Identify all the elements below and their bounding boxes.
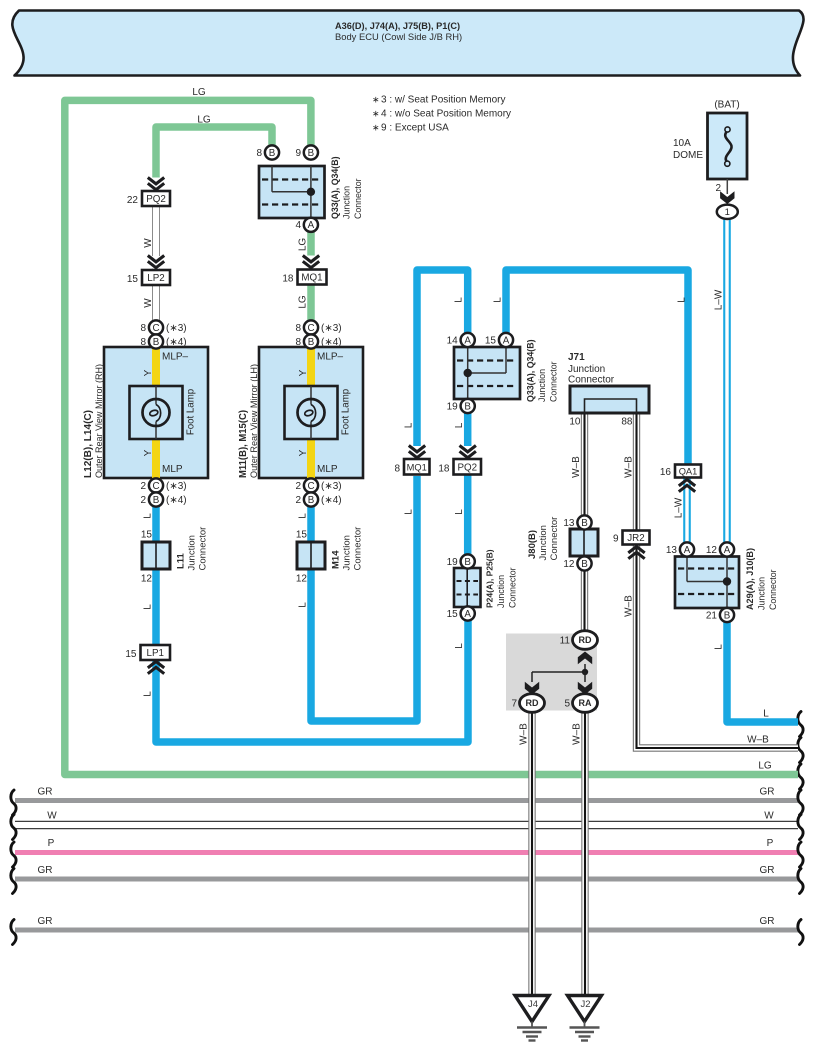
svg-text:(∗4): (∗4)	[321, 337, 342, 348]
svg-text:DOME: DOME	[673, 150, 703, 161]
svg-text:GR: GR	[38, 865, 53, 876]
svg-text:LG: LG	[298, 295, 309, 309]
svg-text:19: 19	[447, 557, 459, 568]
svg-text:P: P	[767, 838, 774, 849]
svg-text:B: B	[464, 401, 471, 412]
svg-text:11: 11	[560, 636, 571, 647]
svg-text:4 : w/o Seat Position Memory: 4 : w/o Seat Position Memory	[381, 109, 511, 120]
svg-text:Y: Y	[143, 369, 154, 376]
svg-text:L: L	[298, 602, 309, 608]
svg-text:Junction: Junction	[568, 364, 605, 375]
svg-text:B: B	[581, 518, 588, 529]
svg-text:8: 8	[256, 148, 262, 159]
svg-text:5: 5	[564, 699, 570, 710]
svg-text:J71: J71	[568, 352, 585, 363]
svg-text:RA: RA	[579, 698, 592, 708]
svg-text:W–B: W–B	[624, 456, 635, 478]
svg-text:(∗4): (∗4)	[321, 495, 342, 506]
svg-text:P: P	[48, 838, 55, 849]
svg-text:2: 2	[295, 481, 301, 492]
svg-text:A29(A), J10(B): A29(A), J10(B)	[745, 548, 755, 610]
svg-text:A36(D), J74(A), J75(B), P1(C): A36(D), J74(A), J75(B), P1(C)	[335, 21, 460, 31]
svg-text:MLP–: MLP–	[317, 352, 344, 363]
svg-text:LP1: LP1	[147, 648, 164, 659]
svg-text:L11: L11	[176, 552, 187, 569]
svg-text:MLP: MLP	[317, 464, 338, 475]
svg-text:A: A	[684, 545, 691, 556]
svg-text:13: 13	[666, 545, 678, 556]
svg-text:Connector: Connector	[508, 568, 518, 609]
svg-text:(∗4): (∗4)	[166, 495, 187, 506]
svg-text:10A: 10A	[673, 138, 691, 149]
svg-text:2: 2	[140, 481, 146, 492]
svg-text:Junction: Junction	[187, 535, 198, 570]
svg-text:W–B: W–B	[624, 595, 635, 617]
svg-text:Connector: Connector	[768, 570, 778, 611]
svg-text:21: 21	[706, 611, 718, 622]
svg-text:M14: M14	[331, 550, 342, 569]
svg-text:Junction: Junction	[496, 575, 506, 608]
svg-text:GR: GR	[38, 916, 53, 927]
svg-text:Y: Y	[298, 369, 309, 376]
svg-text:L12(B), L14(C): L12(B), L14(C)	[83, 410, 94, 478]
svg-text:8: 8	[140, 323, 146, 334]
svg-text:L: L	[454, 422, 465, 428]
svg-text:Junction: Junction	[342, 186, 352, 219]
svg-text:L–W: L–W	[714, 289, 725, 310]
svg-text:L: L	[454, 297, 465, 303]
svg-text:B: B	[153, 337, 160, 348]
svg-text:15: 15	[127, 274, 139, 285]
svg-text:1: 1	[725, 207, 730, 218]
svg-text:J2: J2	[580, 999, 590, 1010]
svg-text:Connector: Connector	[198, 527, 209, 571]
svg-text:15: 15	[447, 609, 459, 620]
svg-text:16: 16	[660, 467, 672, 478]
svg-text:W: W	[143, 298, 154, 308]
svg-text:Body ECU (Cowl Side J/B RH): Body ECU (Cowl Side J/B RH)	[335, 31, 462, 42]
svg-text:9: 9	[613, 534, 619, 545]
svg-text:Junction: Junction	[538, 525, 549, 560]
svg-text:Outer Rear View Mirror (LH): Outer Rear View Mirror (LH)	[249, 364, 259, 478]
svg-text:Q33(A), Q34(B): Q33(A), Q34(B)	[330, 157, 340, 220]
svg-text:A: A	[724, 545, 731, 556]
svg-text:L: L	[404, 422, 415, 428]
svg-text:W: W	[143, 238, 154, 248]
svg-text:M11(B), M15(C): M11(B), M15(C)	[238, 410, 249, 478]
svg-text:(∗3): (∗3)	[321, 481, 342, 492]
svg-text:Junction: Junction	[757, 577, 767, 610]
svg-text:12: 12	[563, 559, 575, 570]
svg-text:88: 88	[621, 417, 633, 428]
svg-text:L: L	[143, 513, 154, 519]
svg-text:13: 13	[563, 518, 575, 529]
svg-text:A: A	[464, 609, 471, 620]
svg-text:C: C	[307, 481, 314, 492]
svg-text:12: 12	[296, 574, 308, 585]
svg-text:L: L	[763, 709, 769, 720]
svg-text:RD: RD	[526, 698, 539, 708]
svg-text:MQ1: MQ1	[407, 462, 427, 472]
svg-text:15: 15	[125, 649, 137, 660]
svg-text:MQ1: MQ1	[301, 273, 322, 284]
svg-text:L: L	[143, 691, 154, 697]
svg-text:Outer Rear View Mirror (RH): Outer Rear View Mirror (RH)	[94, 364, 104, 478]
svg-text:W: W	[47, 811, 57, 822]
svg-text:A: A	[503, 335, 510, 346]
svg-text:LG: LG	[298, 238, 309, 252]
svg-text:12: 12	[141, 574, 153, 585]
svg-text:22: 22	[127, 195, 139, 206]
svg-text:L: L	[143, 604, 154, 610]
svg-text:10: 10	[569, 417, 581, 428]
svg-text:Connector: Connector	[353, 179, 363, 220]
svg-text:JR2: JR2	[627, 533, 644, 544]
svg-text:15: 15	[485, 336, 497, 347]
svg-text:B: B	[269, 148, 276, 159]
svg-text:GR: GR	[760, 916, 775, 927]
svg-text:2: 2	[140, 495, 146, 506]
svg-text:L–W: L–W	[674, 497, 685, 518]
svg-text:∗: ∗	[372, 95, 380, 105]
svg-text:J4: J4	[528, 999, 538, 1010]
svg-text:(∗4): (∗4)	[166, 337, 187, 348]
svg-text:PQ2: PQ2	[146, 194, 166, 205]
svg-text:A: A	[464, 335, 471, 346]
svg-text:18: 18	[438, 464, 450, 475]
svg-text:B: B	[153, 495, 160, 506]
svg-text:L: L	[404, 509, 415, 515]
svg-text:12: 12	[706, 545, 718, 556]
svg-text:GR: GR	[760, 865, 775, 876]
svg-text:Junction: Junction	[537, 369, 547, 402]
svg-text:(∗3): (∗3)	[166, 323, 187, 334]
svg-text:15: 15	[296, 530, 308, 541]
svg-text:PQ2: PQ2	[457, 462, 477, 473]
svg-text:7: 7	[511, 699, 517, 710]
svg-text:C: C	[152, 481, 159, 492]
svg-text:W–B: W–B	[571, 456, 582, 478]
svg-text:W–B: W–B	[519, 723, 530, 745]
svg-text:B: B	[308, 337, 315, 348]
svg-text:9 : Except USA: 9 : Except USA	[381, 123, 449, 134]
svg-text:GR: GR	[760, 787, 775, 798]
svg-text:B: B	[581, 559, 588, 570]
svg-text:RD: RD	[579, 635, 592, 645]
svg-text:L: L	[454, 509, 465, 515]
svg-text:Y: Y	[298, 449, 309, 456]
svg-text:∗: ∗	[372, 123, 380, 133]
svg-text:GR: GR	[38, 787, 53, 798]
svg-text:J80(B): J80(B)	[527, 530, 538, 559]
svg-text:15: 15	[141, 530, 153, 541]
svg-text:L: L	[714, 644, 725, 650]
svg-text:MLP–: MLP–	[162, 352, 189, 363]
svg-text:(∗3): (∗3)	[321, 323, 342, 334]
svg-text:8: 8	[295, 337, 301, 348]
svg-text:Connector: Connector	[549, 517, 560, 561]
svg-text:L: L	[493, 297, 504, 303]
svg-text:LP2: LP2	[147, 273, 164, 284]
svg-text:B: B	[308, 148, 315, 159]
svg-text:W: W	[764, 811, 774, 822]
svg-text:Connector: Connector	[549, 362, 559, 403]
svg-text:LG: LG	[192, 87, 206, 98]
svg-text:Junction: Junction	[342, 535, 353, 570]
svg-text:W–B: W–B	[747, 735, 769, 746]
svg-text:8: 8	[295, 323, 301, 334]
svg-text:L: L	[454, 643, 465, 649]
svg-text:C: C	[152, 323, 159, 334]
svg-text:8: 8	[394, 464, 400, 475]
svg-text:Connector: Connector	[568, 375, 615, 386]
svg-text:3 : w/ Seat Position Memory: 3 : w/ Seat Position Memory	[381, 95, 506, 106]
svg-text:Connector: Connector	[353, 527, 364, 571]
svg-text:Foot Lamp: Foot Lamp	[341, 389, 352, 435]
svg-text:8: 8	[140, 337, 146, 348]
svg-text:Y: Y	[143, 449, 154, 456]
svg-text:18: 18	[282, 274, 294, 285]
svg-text:Foot Lamp: Foot Lamp	[186, 389, 197, 435]
svg-text:(∗3): (∗3)	[166, 481, 187, 492]
svg-text:B: B	[464, 557, 471, 568]
svg-text:LG: LG	[758, 761, 772, 772]
svg-text:B: B	[724, 610, 731, 621]
svg-text:9: 9	[295, 148, 301, 159]
svg-text:∗: ∗	[372, 109, 380, 119]
svg-text:QA1: QA1	[679, 467, 698, 477]
svg-text:(BAT): (BAT)	[714, 100, 739, 111]
svg-text:19: 19	[447, 402, 459, 413]
svg-text:L: L	[298, 513, 309, 519]
svg-text:2: 2	[295, 495, 301, 506]
svg-text:P24(A), P25(B): P24(A), P25(B)	[485, 549, 495, 608]
svg-text:14: 14	[447, 336, 459, 347]
svg-text:W–B: W–B	[572, 723, 583, 745]
svg-text:LG: LG	[197, 115, 211, 126]
svg-text:C: C	[307, 323, 314, 334]
svg-text:MLP: MLP	[162, 464, 183, 475]
svg-text:B: B	[308, 495, 315, 506]
svg-text:4: 4	[295, 220, 301, 231]
svg-text:A: A	[308, 220, 315, 231]
svg-text:Q33(A), Q34(B): Q33(A), Q34(B)	[526, 340, 536, 403]
svg-text:L: L	[677, 297, 688, 303]
